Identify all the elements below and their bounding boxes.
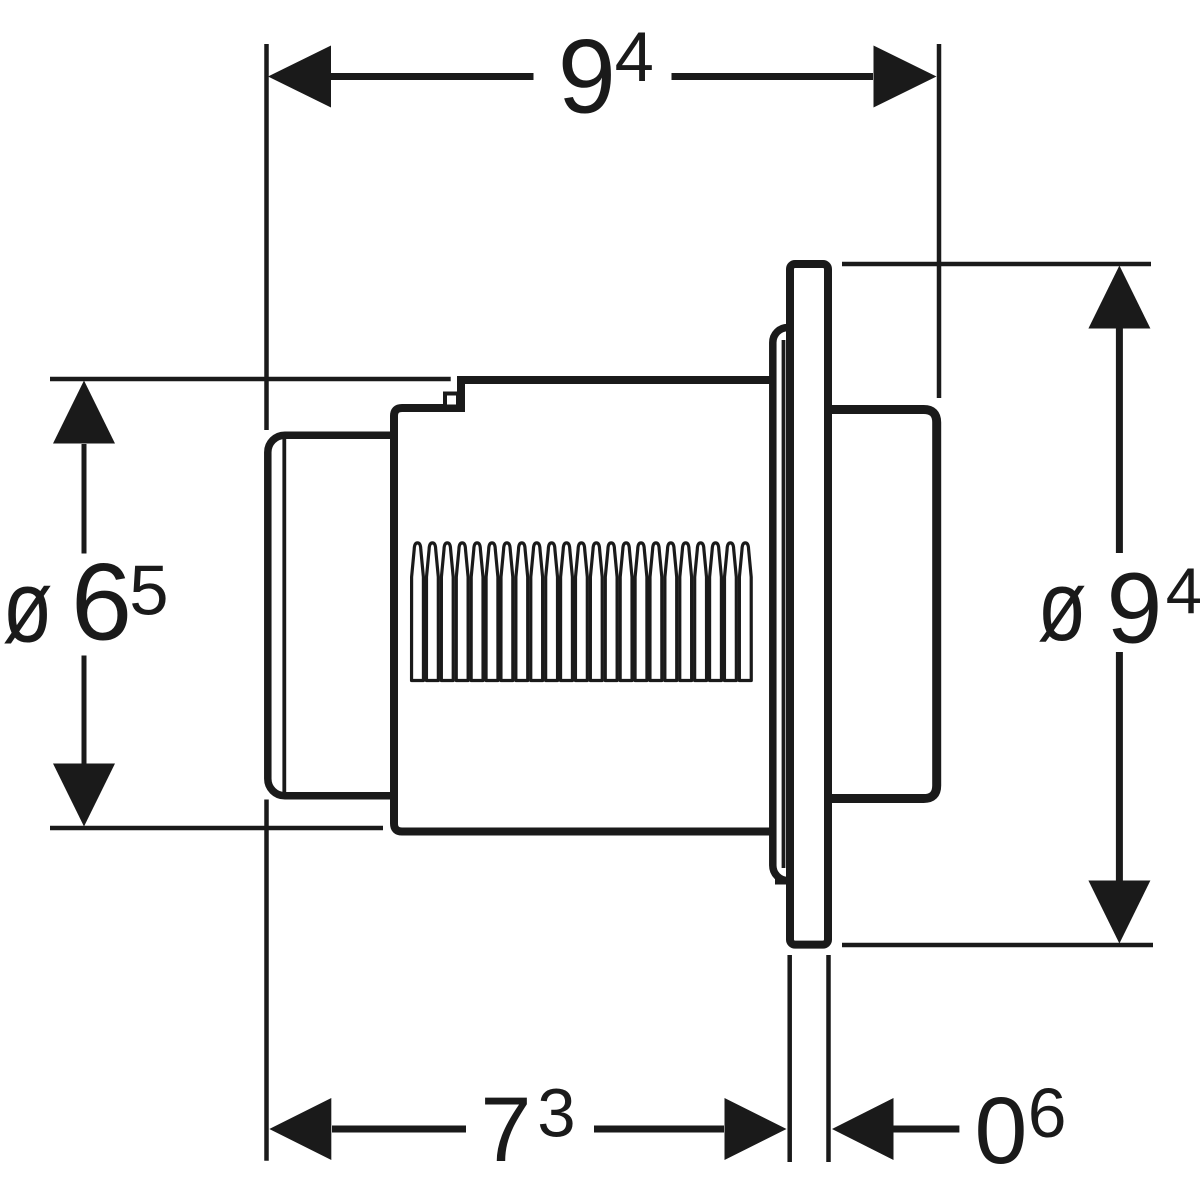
arrowhead 94 left	[268, 46, 331, 108]
dimension line 94 top	[331, 73, 873, 80]
protective back plate (right)	[830, 410, 937, 799]
arrowhead 94 right	[874, 46, 937, 108]
arrowhead 73 left	[269, 1098, 331, 1160]
dimension line 06 bottom	[894, 1126, 960, 1133]
reference line dia94 top	[842, 262, 1151, 267]
push button cap (left small cylinder, dia 65)	[268, 435, 420, 796]
svg-text:0: 0	[975, 1078, 1028, 1184]
reference line dia65 bottom	[50, 826, 383, 831]
gasket ring behind flange	[773, 328, 811, 881]
arrowhead dia65 up	[53, 381, 115, 444]
svg-text:7: 7	[480, 1079, 531, 1181]
svg-text:9: 9	[1107, 552, 1163, 664]
svg-text:4: 4	[615, 17, 654, 96]
extension line flange right	[826, 955, 831, 1162]
dimension line dia94	[1116, 327, 1123, 881]
reference line dia65 top	[50, 377, 451, 382]
arrowhead 73 right	[725, 1098, 787, 1160]
threaded section (corrugated ribs)	[412, 543, 752, 681]
extension line right of top dimension	[937, 44, 942, 398]
extension line left (cap, lower)	[264, 800, 269, 1161]
reference line dia94 bottom	[842, 943, 1153, 948]
gasket bottom step	[775, 878, 788, 885]
svg-text:ø: ø	[1038, 551, 1087, 662]
svg-text:4: 4	[1166, 554, 1200, 627]
main body (center cylinder)	[394, 380, 770, 832]
arrowhead dia94 down	[1088, 881, 1150, 944]
dimension line dia65	[82, 444, 87, 765]
svg-text:9: 9	[558, 19, 616, 136]
extension line flange left	[787, 955, 792, 1162]
cap inner edge line	[282, 439, 286, 792]
dimension line 73 bottom	[332, 1126, 724, 1133]
detent notch on body shoulder	[445, 394, 458, 407]
arrowhead 06 left	[832, 1098, 894, 1160]
svg-text:6: 6	[71, 541, 132, 663]
svg-text:ø: ø	[3, 550, 53, 664]
svg-text:6: 6	[1028, 1074, 1067, 1152]
arrowhead dia94 up	[1088, 266, 1150, 329]
arrowhead dia65 down	[53, 764, 115, 827]
gasket inner edge line	[782, 340, 786, 868]
svg-text:5: 5	[129, 550, 168, 629]
extension line left (cap, upper)	[264, 44, 269, 430]
svg-text:3: 3	[537, 1074, 575, 1151]
wall flange plate (dia 94)	[790, 264, 828, 945]
